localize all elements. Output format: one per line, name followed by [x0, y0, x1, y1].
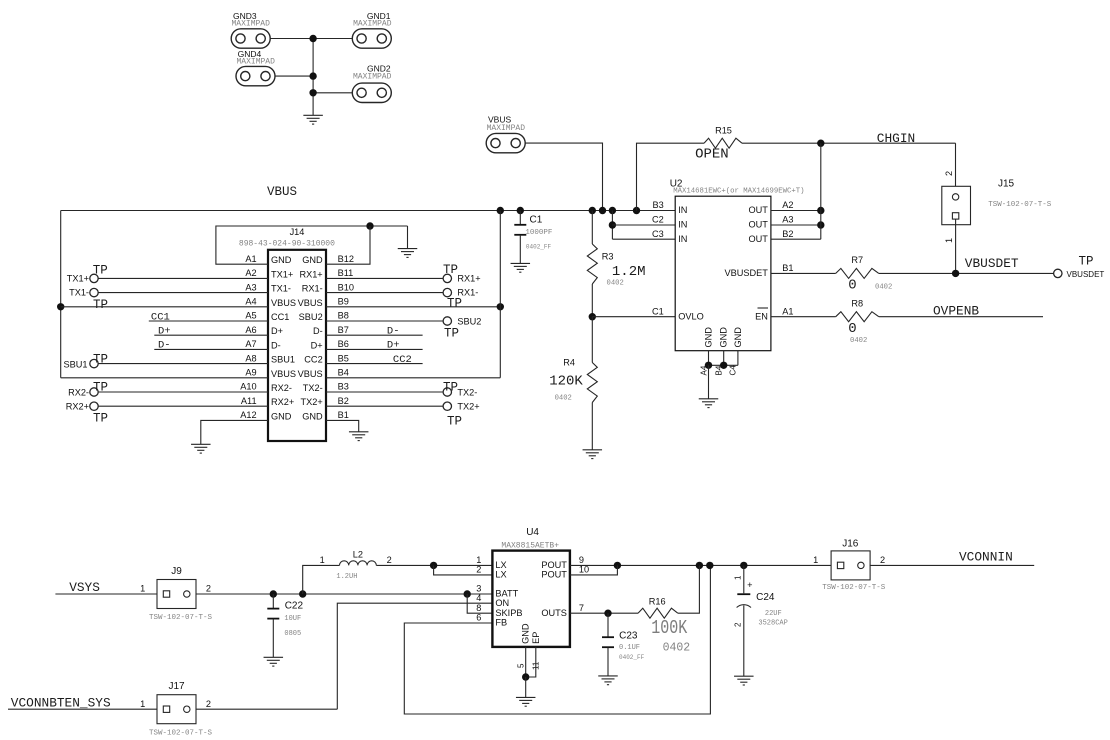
- wire: [637, 143, 705, 210]
- junction: [706, 562, 713, 569]
- wire VCONNIN: [870, 549, 1034, 565]
- svg-text:10: 10: [579, 565, 589, 575]
- svg-text:VBUS: VBUS: [271, 369, 296, 379]
- svg-text:D-: D-: [271, 340, 281, 350]
- svg-text:GND: GND: [719, 327, 729, 348]
- connector J9: [140, 566, 212, 622]
- testpoint TP TX2+: [443, 402, 480, 429]
- wire B12 GND: [326, 226, 370, 264]
- svg-text:RX2-: RX2-: [68, 388, 89, 398]
- svg-text:TX2-: TX2-: [457, 388, 477, 398]
- junction: [497, 303, 504, 310]
- svg-text:0.1UF: 0.1UF: [619, 644, 640, 652]
- svg-text:0805: 0805: [284, 630, 301, 638]
- svg-text:1: 1: [813, 555, 818, 565]
- svg-text:D+: D+: [311, 340, 323, 350]
- wire: [499, 211, 501, 378]
- J14 pin labels: [240, 254, 354, 422]
- svg-text:C23: C23: [619, 630, 638, 641]
- ground: [303, 115, 323, 124]
- svg-text:1.2UH: 1.2UH: [336, 573, 357, 581]
- testpoint TP TX2-: [443, 380, 477, 397]
- wire: [526, 647, 536, 677]
- svg-text:2: 2: [206, 699, 211, 709]
- wire A5 CC1: [149, 311, 268, 323]
- wire A3: [98, 292, 268, 294]
- wire: [771, 272, 836, 274]
- svg-text:L2: L2: [353, 550, 363, 560]
- svg-text:GND: GND: [271, 411, 292, 421]
- svg-text:TP: TP: [443, 380, 458, 394]
- svg-text:0402: 0402: [850, 337, 867, 345]
- junction: [633, 207, 640, 214]
- wire B4 VBUS: [326, 377, 500, 379]
- svg-text:TX1+: TX1+: [67, 274, 89, 284]
- svg-text:B1: B1: [338, 410, 349, 420]
- wire: [196, 708, 337, 710]
- svg-text:GND: GND: [302, 411, 323, 421]
- junction: [817, 207, 824, 214]
- svg-text:B2: B2: [338, 396, 349, 406]
- svg-text:1: 1: [140, 699, 145, 709]
- svg-text:898-43-024-90-310000: 898-43-024-90-310000: [239, 240, 335, 249]
- ground: [734, 676, 754, 685]
- svg-text:B3: B3: [653, 200, 664, 210]
- wire A11: [98, 405, 268, 407]
- svg-text:A1: A1: [782, 306, 793, 316]
- ground: [264, 657, 284, 666]
- testpoint TP TX1+: [67, 263, 108, 283]
- svg-text:D+: D+: [158, 326, 171, 338]
- wire POUT: [570, 564, 831, 566]
- svg-text:RX2+: RX2+: [66, 402, 89, 412]
- svg-text:GND: GND: [271, 255, 292, 265]
- svg-text:C2: C2: [652, 215, 664, 225]
- svg-text:J15: J15: [998, 178, 1015, 189]
- wire B3: [326, 391, 443, 393]
- svg-text:B11: B11: [338, 268, 354, 278]
- testpoint TP RX2-: [68, 381, 108, 398]
- svg-text:CC1: CC1: [271, 312, 289, 322]
- svg-text:A1: A1: [245, 254, 256, 264]
- svg-text:A9: A9: [245, 368, 256, 378]
- wire VBUS rail: [61, 210, 676, 212]
- inductor L2: [320, 550, 392, 581]
- testpoint TP SBU1: [63, 352, 108, 369]
- svg-text:TX2+: TX2+: [300, 397, 322, 407]
- wire VCONNBTEN_SYS: [8, 695, 157, 710]
- testpoint TP RX2+: [66, 402, 108, 426]
- wire B5 CC2: [326, 354, 423, 366]
- svg-text:D+: D+: [271, 326, 283, 336]
- svg-text:R15: R15: [715, 126, 732, 136]
- wire: [611, 211, 613, 240]
- svg-text:2: 2: [734, 622, 743, 627]
- ground: [349, 432, 369, 441]
- wire A9 VBUS: [61, 377, 268, 379]
- svg-text:B4: B4: [338, 368, 349, 378]
- testpoint TP SBU2: [443, 316, 481, 340]
- svg-text:VBUS: VBUS: [298, 298, 323, 308]
- wire OUT A3: [771, 224, 821, 226]
- wire A8: [98, 363, 268, 365]
- wire A1 GND: [216, 226, 408, 264]
- svg-text:MAXIMPAD: MAXIMPAD: [353, 20, 392, 29]
- wire OUT B2: [771, 238, 821, 240]
- wire: [467, 594, 492, 613]
- U2 GND pins: [699, 327, 743, 376]
- wire: [955, 143, 957, 193]
- svg-text:OUT: OUT: [748, 205, 768, 215]
- svg-text:A2: A2: [782, 200, 793, 210]
- svg-text:B8: B8: [338, 311, 349, 321]
- svg-text:TP: TP: [1079, 255, 1094, 269]
- svg-text:7: 7: [579, 603, 584, 613]
- svg-text:8: 8: [476, 603, 481, 613]
- ground: [583, 450, 603, 459]
- svg-text:0: 0: [848, 321, 856, 337]
- testpoint TP TX1-: [69, 288, 108, 312]
- wire B8: [326, 320, 443, 322]
- ground: [191, 444, 211, 453]
- svg-text:120K: 120K: [549, 374, 583, 390]
- wire: [678, 565, 700, 613]
- wire: [525, 647, 527, 677]
- svg-text:IN: IN: [678, 220, 687, 230]
- svg-text:TP: TP: [93, 298, 108, 312]
- wire OVLO: [592, 316, 675, 318]
- svg-text:R7: R7: [851, 255, 863, 265]
- svg-text:R8: R8: [851, 299, 863, 309]
- svg-text:TSW-102-07-T-S: TSW-102-07-T-S: [988, 201, 1052, 209]
- junction: [604, 610, 611, 617]
- svg-text:VBUSDET: VBUSDET: [724, 268, 768, 278]
- svg-text:A3: A3: [782, 215, 793, 225]
- ground: [699, 399, 719, 408]
- ground pad GND1: [352, 11, 391, 48]
- svg-text:MAX8815AETB+: MAX8815AETB+: [501, 542, 559, 551]
- svg-text:SKIPB: SKIPB: [495, 608, 522, 618]
- svg-text:J16: J16: [842, 538, 859, 549]
- wire VSYS: [55, 580, 157, 595]
- wire: [407, 226, 409, 249]
- wire: [525, 677, 527, 697]
- svg-text:VCONNBTEN_SYS: VCONNBTEN_SYS: [11, 695, 111, 710]
- junction: [270, 590, 277, 597]
- svg-text:TX1-: TX1-: [271, 284, 291, 294]
- svg-text:D-: D-: [387, 326, 400, 338]
- wire: [434, 565, 493, 575]
- svg-text:R3: R3: [602, 252, 614, 262]
- wire: [270, 38, 352, 40]
- resistor R4: [549, 317, 597, 450]
- svg-text:0402_FF: 0402_FF: [526, 244, 552, 251]
- svg-text:0402: 0402: [875, 283, 892, 291]
- svg-text:C22: C22: [285, 601, 304, 612]
- wire: [525, 143, 602, 210]
- wire ON: [337, 603, 492, 709]
- svg-text:D-: D-: [313, 326, 323, 336]
- junction: [517, 207, 524, 214]
- wire OVPENB: [879, 303, 1043, 318]
- junction: [589, 313, 596, 320]
- svg-text:A10: A10: [240, 382, 256, 392]
- junction: [952, 270, 959, 277]
- junction: [696, 562, 703, 569]
- wire B1 GND: [326, 420, 359, 431]
- wire A4 VBUS: [61, 306, 268, 308]
- svg-text:VBUS: VBUS: [271, 298, 296, 308]
- node: [309, 35, 316, 42]
- svg-text:A2: A2: [245, 268, 256, 278]
- wire B7 D-: [326, 326, 423, 338]
- ground: [398, 249, 418, 258]
- svg-text:POUT: POUT: [541, 570, 567, 580]
- svg-text:TP: TP: [93, 352, 108, 366]
- svg-text:RX2+: RX2+: [271, 397, 294, 407]
- svg-text:2: 2: [387, 555, 392, 565]
- svg-text:1: 1: [140, 584, 145, 594]
- ground pad GND2: [352, 64, 391, 103]
- junction: [614, 562, 621, 569]
- svg-text:1: 1: [734, 575, 743, 580]
- svg-text:FB: FB: [495, 618, 507, 628]
- wire CHGIN: [742, 131, 956, 146]
- svg-text:RX1+: RX1+: [457, 274, 480, 284]
- svg-text:9: 9: [579, 555, 584, 565]
- svg-text:2: 2: [206, 584, 211, 594]
- svg-text:+: +: [747, 580, 752, 590]
- svg-text:A3: A3: [245, 282, 256, 292]
- svg-text:A6: A6: [245, 325, 256, 335]
- svg-text:A7: A7: [245, 339, 256, 349]
- testpoint TP RX1+: [443, 263, 481, 284]
- svg-text:OUT: OUT: [748, 220, 768, 230]
- svg-text:D+: D+: [387, 340, 400, 352]
- svg-text:OUTS: OUTS: [541, 608, 567, 618]
- svg-text:1: 1: [320, 555, 325, 565]
- svg-text:A12: A12: [240, 410, 256, 420]
- wire: [570, 565, 618, 575]
- svg-text:TX1+: TX1+: [271, 269, 293, 279]
- junction: [720, 362, 727, 369]
- svg-text:IN: IN: [678, 234, 687, 244]
- svg-text:CC2: CC2: [304, 355, 322, 365]
- svg-text:VBUSDET: VBUSDET: [965, 256, 1019, 271]
- svg-text:MAXIMPAD: MAXIMPAD: [487, 124, 526, 133]
- svg-text:RX1-: RX1-: [302, 284, 323, 294]
- junction: [817, 140, 824, 147]
- wire: [820, 143, 822, 239]
- svg-text:TP: TP: [93, 263, 108, 277]
- net VBUS: [267, 185, 297, 199]
- svg-text:TP: TP: [93, 412, 108, 426]
- svg-text:MAX14681EWC+(or MAX14699EWC+T): MAX14681EWC+(or MAX14699EWC+T): [673, 187, 804, 195]
- svg-text:22UF: 22UF: [765, 610, 782, 618]
- svg-text:J14: J14: [290, 227, 305, 237]
- svg-text:CC1: CC1: [151, 311, 170, 323]
- svg-text:1: 1: [944, 238, 954, 243]
- svg-text:B2: B2: [782, 229, 793, 239]
- svg-text:0402: 0402: [555, 395, 572, 403]
- wire: [303, 565, 340, 594]
- junction: [497, 207, 504, 214]
- svg-text:MAXIMPAD: MAXIMPAD: [232, 20, 271, 29]
- svg-text:U4: U4: [526, 527, 539, 538]
- svg-text:1: 1: [476, 555, 481, 565]
- wire A6 D+: [154, 326, 268, 338]
- ground pad GND3: [231, 11, 270, 48]
- wire: [612, 224, 675, 226]
- capacitor C22: [267, 594, 303, 657]
- svg-text:TX1-: TX1-: [69, 288, 89, 298]
- svg-text:C3: C3: [652, 229, 664, 239]
- svg-text:MAXIMPAD: MAXIMPAD: [353, 72, 392, 81]
- svg-text:4: 4: [476, 593, 481, 603]
- wire: [612, 238, 675, 240]
- svg-text:SBU1: SBU1: [63, 359, 87, 369]
- svg-text:TSW-102-07-T-S: TSW-102-07-T-S: [149, 614, 213, 622]
- svg-text:R16: R16: [649, 597, 666, 607]
- svg-text:OVLO: OVLO: [678, 311, 704, 321]
- svg-text:CC2: CC2: [393, 354, 412, 366]
- wire: [955, 219, 957, 273]
- svg-text:VBUS: VBUS: [267, 185, 297, 199]
- wire FB loop: [404, 565, 710, 714]
- junction: [599, 207, 606, 214]
- connector J14: [239, 227, 335, 441]
- svg-text:B10: B10: [338, 282, 354, 292]
- svg-text:GND: GND: [302, 255, 323, 265]
- wire: [771, 316, 836, 318]
- svg-text:C24: C24: [756, 592, 775, 603]
- resistor R16: [638, 597, 690, 655]
- svg-text:IN: IN: [678, 205, 687, 215]
- svg-text:SBU2: SBU2: [299, 312, 323, 322]
- wire B11: [326, 277, 443, 279]
- svg-text:2: 2: [880, 555, 885, 565]
- wire: [312, 39, 314, 116]
- junction: [299, 590, 306, 597]
- svg-text:A8: A8: [245, 353, 256, 363]
- svg-text:B6: B6: [338, 339, 349, 349]
- svg-text:TSW-102-07-T-S: TSW-102-07-T-S: [822, 584, 886, 592]
- svg-text:J17: J17: [168, 681, 185, 692]
- op-amp U4: [492, 527, 570, 647]
- svg-text:POUT: POUT: [541, 560, 567, 570]
- junction: [609, 221, 616, 228]
- resistor R15: [695, 126, 742, 163]
- svg-text:10UF: 10UF: [284, 615, 301, 623]
- svg-text:0: 0: [848, 278, 856, 294]
- power pad VBUS: [486, 115, 525, 153]
- testpoint TP VBUSDET: [1054, 255, 1105, 280]
- svg-text:GND: GND: [704, 327, 714, 348]
- svg-text:LX: LX: [495, 560, 506, 570]
- wire B10: [326, 292, 443, 294]
- svg-text:R4: R4: [563, 357, 575, 367]
- wire B6 D+: [326, 340, 423, 352]
- svg-text:B1: B1: [782, 263, 793, 273]
- svg-text:D-: D-: [158, 340, 171, 352]
- svg-text:A4: A4: [245, 297, 256, 307]
- svg-text:TP: TP: [93, 381, 108, 395]
- svg-text:OPEN: OPEN: [695, 147, 729, 163]
- svg-text:ON: ON: [495, 598, 509, 608]
- svg-text:EP: EP: [531, 632, 541, 644]
- svg-text:J9: J9: [171, 566, 182, 577]
- svg-text:1.2M: 1.2M: [612, 264, 646, 280]
- svg-text:B7: B7: [338, 325, 349, 335]
- wire: [275, 75, 313, 77]
- connector J15: [942, 171, 1052, 243]
- junction: [464, 590, 471, 597]
- junction: [609, 207, 616, 214]
- op-amp U2: [670, 179, 805, 351]
- ground: [511, 263, 531, 272]
- wire: [196, 593, 493, 595]
- resistor R8: [836, 299, 879, 345]
- svg-text:TX2-: TX2-: [303, 383, 323, 393]
- wire: [376, 564, 492, 566]
- svg-text:SBU1: SBU1: [271, 355, 295, 365]
- svg-text:TX2+: TX2+: [457, 402, 479, 412]
- ground: [598, 676, 618, 685]
- junction: [430, 562, 437, 569]
- wire: [570, 612, 638, 614]
- wire A7 D-: [154, 340, 268, 352]
- svg-text:0402_FF: 0402_FF: [619, 654, 645, 661]
- svg-text:B12: B12: [338, 254, 354, 264]
- svg-text:VBUSDET: VBUSDET: [1067, 270, 1105, 279]
- svg-text:100K: 100K: [651, 618, 687, 639]
- svg-text:LX: LX: [495, 570, 506, 580]
- svg-text:EN: EN: [755, 311, 768, 321]
- svg-text:GND: GND: [733, 327, 743, 348]
- junction: [522, 673, 529, 680]
- svg-text:2: 2: [476, 565, 481, 575]
- junction: [817, 221, 824, 228]
- junction: [589, 207, 596, 214]
- node: [309, 89, 316, 96]
- wire A2: [98, 277, 268, 279]
- junction: [366, 222, 373, 229]
- capacitor C23: [602, 613, 645, 676]
- testpoint TP RX1-: [443, 288, 478, 311]
- U4 pin labels: [476, 555, 589, 670]
- connector J16: [813, 538, 886, 592]
- svg-text:C4: C4: [729, 365, 738, 376]
- junction: [57, 303, 64, 310]
- svg-text:TP: TP: [447, 297, 462, 311]
- capacitor C1: [514, 211, 552, 264]
- svg-text:B5: B5: [338, 353, 349, 363]
- svg-text:B3: B3: [338, 382, 349, 392]
- ground pad GND4: [236, 49, 275, 86]
- svg-text:0402: 0402: [607, 280, 624, 288]
- svg-text:RX1+: RX1+: [299, 269, 322, 279]
- wire B2: [326, 405, 443, 407]
- svg-text:5: 5: [517, 663, 526, 668]
- resistor R3: [587, 211, 645, 317]
- resistor R7: [836, 255, 893, 293]
- svg-text:VSYS: VSYS: [69, 580, 100, 595]
- svg-text:TP: TP: [444, 326, 459, 340]
- wire OUT A2: [771, 210, 821, 212]
- svg-text:3528CAP: 3528CAP: [758, 619, 787, 627]
- svg-text:1000PF: 1000PF: [525, 229, 552, 237]
- junction: [705, 362, 712, 369]
